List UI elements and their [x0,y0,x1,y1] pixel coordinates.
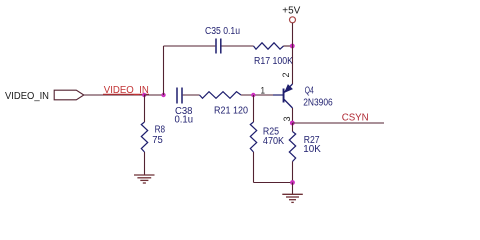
wire [144,152,146,175]
svg-text:2N3906: 2N3906 [303,97,333,108]
wire [253,152,255,183]
wire [144,94,164,96]
svg-text:470K: 470K [263,136,284,147]
capacitor C38 [176,88,178,104]
resistor R17 [254,43,284,49]
ground [282,194,303,202]
svg-text:Q4: Q4 [305,86,314,97]
svg-text:R17 100K: R17 100K [254,56,293,67]
wire [164,45,216,47]
junction [290,180,295,185]
resistor R27 [289,132,295,162]
transistor Q4 [283,84,293,108]
svg-text:R21 120: R21 120 [214,106,248,117]
svg-text:CSYN: CSYN [342,113,369,124]
junction [161,93,165,97]
junction [142,93,146,97]
junction [251,93,255,97]
wire [84,94,144,96]
resistor R8 [141,122,147,152]
wire [292,183,294,195]
svg-text:R8: R8 [155,125,166,136]
wire [254,182,293,184]
wire [163,46,165,95]
junction [290,121,295,126]
capacitor C35 [215,39,217,54]
wire [292,123,294,132]
svg-text:VIDEO_IN: VIDEO_IN [5,91,49,102]
wire [222,45,254,47]
svg-text:0.1u: 0.1u [175,115,194,126]
wire CSYN [293,122,385,124]
wire [183,94,200,96]
resistor R25 [250,122,256,152]
wire [292,23,294,84]
svg-text:75: 75 [152,135,163,146]
transistor Q4 base lead [273,94,283,96]
wire [284,45,293,47]
svg-text:1: 1 [261,86,266,97]
svg-text:C35 0.1u: C35 0.1u [205,26,240,37]
svg-text:3: 3 [282,117,293,122]
wire [144,95,146,122]
svg-text:2: 2 [281,73,292,78]
ground [134,175,155,183]
svg-text:+5V: +5V [282,6,300,17]
wire [292,108,294,123]
wire [253,95,255,122]
junction [290,44,295,49]
svg-text:10K: 10K [303,144,321,155]
connector VIDEO_IN (input port symbol) [54,90,84,100]
resistor R21 [200,92,242,99]
wire [241,94,273,96]
wire [292,162,294,183]
